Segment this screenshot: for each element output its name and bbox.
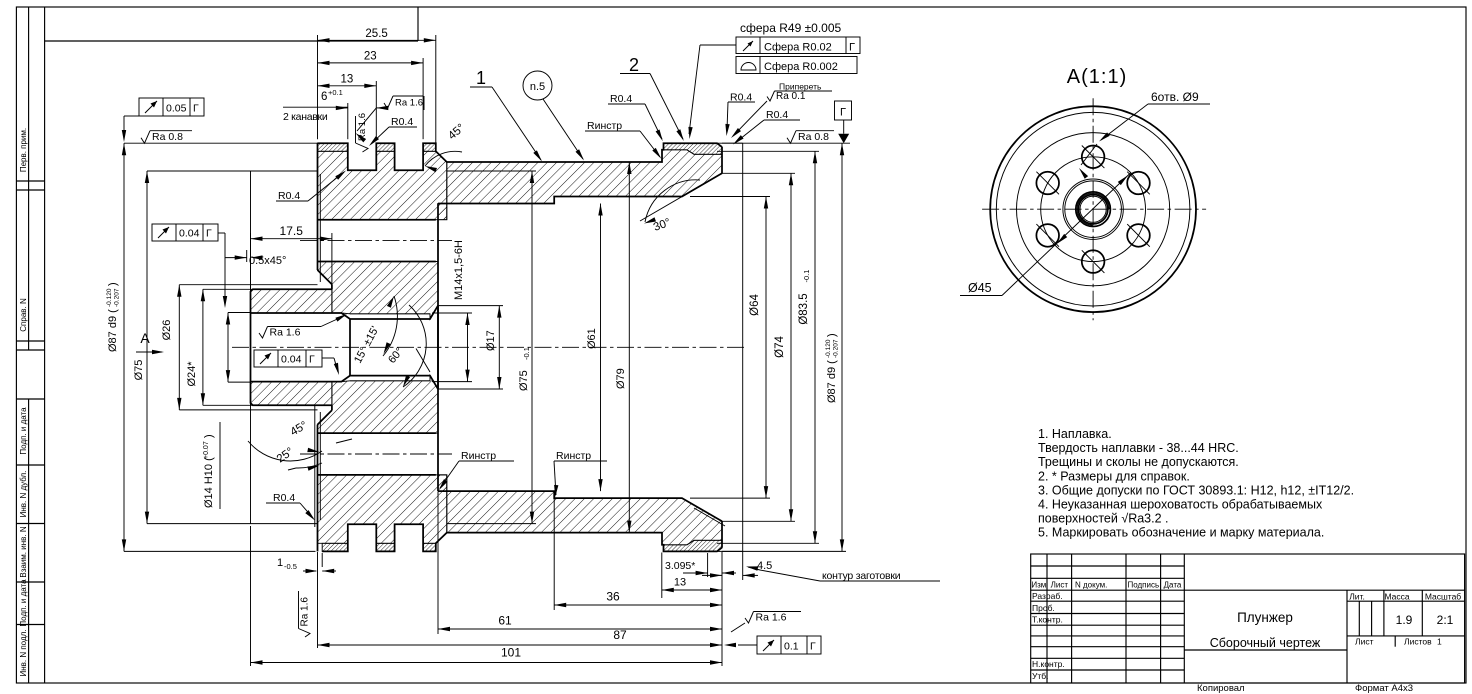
dimension 25.5	[317, 35, 319, 139]
svg-text:1.9: 1.9	[1396, 613, 1413, 627]
svg-text:Ø26: Ø26	[161, 320, 173, 341]
svg-text:N докум.: N докум.	[1075, 581, 1107, 590]
hardfacing band lower left	[322, 543, 348, 551]
svg-text:R0.4: R0.4	[766, 109, 788, 121]
blank contour right	[742, 143, 744, 551]
svg-text:Изм: Изм	[1031, 581, 1046, 590]
thread boundary line	[349, 319, 351, 376]
svg-text:Ra 0.8: Ra 0.8	[798, 131, 829, 143]
svg-text:Ø17: Ø17	[485, 330, 497, 351]
svg-text:23: 23	[364, 50, 377, 62]
blank contour left	[250, 171, 252, 524]
overlay boundary line	[447, 170, 536, 172]
svg-text:Г: Г	[309, 354, 315, 366]
svg-text:5. Маркировать обозначение и м: 5. Маркировать обозначение и марку матер…	[1038, 526, 1324, 540]
svg-text:): )	[826, 333, 838, 337]
sphere runout frame	[736, 37, 860, 54]
svg-text:R0.4: R0.4	[391, 116, 413, 128]
svg-text:Масса: Масса	[1384, 592, 1409, 602]
dimension 3.095	[707, 553, 709, 577]
30 degree cone extension	[640, 173, 722, 221]
dimension 0.5x45	[246, 250, 248, 262]
dimension Ø83.5	[717, 150, 819, 152]
roughness Ra 1.6 groove2	[384, 96, 393, 109]
svg-text:Г: Г	[840, 107, 846, 119]
svg-text:A: A	[140, 330, 150, 346]
roughness Ra 1.6 bottom right	[745, 612, 801, 624]
title block rows	[1031, 565, 1185, 567]
hatch lower flange block	[318, 475, 447, 543]
svg-text:Копировал: Копировал	[1197, 683, 1245, 694]
svg-text:Ra 1.6: Ra 1.6	[357, 113, 368, 141]
view A outer circles	[990, 106, 1196, 312]
svg-text:Ø61: Ø61	[586, 328, 598, 349]
svg-text:Подп. и дата: Подп. и дата	[19, 579, 28, 627]
svg-text:2: 2	[629, 55, 639, 75]
dimension Ø79	[628, 162, 630, 533]
svg-text:Подп. и дата: Подп. и дата	[19, 407, 28, 455]
svg-text:2. * Размеры для справок.: 2. * Размеры для справок.	[1038, 469, 1190, 483]
svg-text:Утб.: Утб.	[1032, 671, 1049, 681]
left face	[317, 143, 319, 270]
dimension Ø87 d9 left	[124, 550, 316, 552]
svg-text:Твердость наплавки - 38...44 H: Твердость наплавки - 38...44 HRC.	[1038, 441, 1239, 455]
svg-text:0.5x45°: 0.5x45°	[249, 255, 286, 267]
svg-text:Справ. N: Справ. N	[19, 298, 28, 332]
svg-text:Проб.: Проб.	[1032, 603, 1055, 613]
svg-text:Ø87 d9 (: Ø87 d9 (	[826, 360, 838, 403]
svg-text:Ø64: Ø64	[749, 294, 761, 316]
svg-text:-0.207: -0.207	[114, 288, 121, 307]
svg-text:Ø14 H10 (: Ø14 H10 (	[203, 457, 215, 508]
svg-text:Ø87 d9 (: Ø87 d9 (	[107, 309, 119, 352]
sphere leader	[700, 44, 736, 46]
hatch upper middle tube	[438, 150, 722, 220]
svg-text:13: 13	[341, 73, 354, 85]
svg-text:R0.4: R0.4	[610, 93, 632, 105]
svg-text:1: 1	[476, 68, 486, 88]
hatch lower web	[318, 376, 439, 434]
datum Г right	[722, 142, 850, 144]
svg-text:Rинстр: Rинстр	[556, 450, 591, 462]
svg-text:Лист: Лист	[1051, 581, 1069, 590]
svg-text:2:1: 2:1	[1437, 613, 1454, 627]
view A bolt circle	[1041, 157, 1146, 262]
svg-text:Rинстр: Rинстр	[587, 120, 622, 132]
svg-text:Ra 0.1: Ra 0.1	[776, 91, 806, 102]
svg-text:Подпись: Подпись	[1127, 581, 1159, 590]
svg-text:Ra 0.8: Ra 0.8	[152, 131, 183, 143]
bolt hole axis upper	[300, 240, 452, 242]
hatch upper flange block	[318, 151, 447, 219]
svg-text:4. Неуказанная шероховатость о: 4. Неуказанная шероховатость обрабатывае…	[1038, 498, 1323, 512]
part outline lower	[322, 524, 722, 551]
svg-text:Т.контр.: Т.контр.	[1032, 615, 1063, 625]
svg-text:Н.контр.: Н.контр.	[1032, 659, 1065, 669]
svg-text:Ø75: Ø75	[518, 370, 530, 391]
dimension 4.5	[742, 551, 744, 580]
svg-text:Листов: Листов	[1404, 637, 1432, 647]
dimension Ø14 H10	[228, 312, 251, 314]
svg-text:0.1: 0.1	[784, 641, 799, 653]
svg-text:0.04: 0.04	[281, 354, 302, 366]
svg-text:17.5: 17.5	[280, 224, 304, 238]
svg-text:Трещины и сколы не допускаются: Трещины и сколы не допускаются.	[1038, 455, 1239, 469]
note circle n.5	[523, 71, 552, 100]
bolt hole axis lower	[300, 453, 452, 455]
svg-text:Г: Г	[849, 42, 855, 54]
thread major thin lines	[350, 313, 430, 315]
view A circle Ø64	[1017, 133, 1170, 286]
svg-text:-0.1: -0.1	[522, 347, 531, 360]
svg-text:1. Наплавка.: 1. Наплавка.	[1038, 427, 1112, 441]
hatch upper web	[318, 262, 439, 320]
svg-text:R0.4: R0.4	[278, 190, 300, 202]
svg-text:36: 36	[606, 590, 620, 604]
svg-text:Сфера R0.02: Сфера R0.02	[764, 42, 832, 54]
svg-text:сфера R49 ±0.005: сфера R49 ±0.005	[740, 21, 842, 35]
svg-text:+0.1: +0.1	[328, 88, 343, 97]
dimension 1-0.5	[317, 552, 319, 648]
part outline upper	[318, 143, 723, 170]
dimension Ø75 left	[147, 170, 251, 172]
right face	[721, 147, 723, 173]
dimension M14x1.5-6H	[432, 312, 472, 314]
svg-text:R0.4: R0.4	[273, 492, 295, 504]
svg-text:Ø24*: Ø24*	[186, 361, 198, 387]
svg-text:Припереть: Припереть	[779, 82, 822, 92]
dimension Ø17	[438, 305, 503, 307]
hardfacing band upper left	[318, 143, 348, 151]
svg-text:-0.207: -0.207	[833, 339, 840, 358]
runout frame 0.05	[139, 98, 204, 116]
svg-text:3. Общие допуски по ГОСТ 30893: 3. Общие допуски по ГОСТ 30893.1: H12, h…	[1038, 483, 1354, 497]
svg-text:+0.07: +0.07	[203, 441, 210, 459]
svg-text:Формат А4х3: Формат А4х3	[1355, 683, 1413, 694]
top-left primary-use table	[45, 40, 418, 42]
svg-text:3.095*: 3.095*	[665, 560, 695, 572]
svg-text:Лит.: Лит.	[1349, 592, 1365, 602]
blank cone allowance line	[694, 508, 725, 526]
svg-text:1: 1	[1437, 637, 1442, 647]
svg-text:Разраб.: Разраб.	[1032, 591, 1063, 601]
bolt hole slot lines lower	[318, 474, 436, 476]
svg-text:): )	[107, 282, 119, 286]
runout frame 0.04 upper	[152, 224, 218, 241]
лит subcells	[1358, 601, 1360, 636]
hatch boss lower	[251, 382, 332, 406]
svg-text:Взаим. инв. N: Взаим. инв. N	[19, 526, 28, 577]
bore walls lower	[438, 491, 722, 521]
title block frame	[1031, 554, 1465, 683]
runout frame 0.04 lower	[254, 350, 322, 367]
dimension Ø87 d9 right	[722, 550, 846, 552]
svg-text:2 канавки: 2 канавки	[283, 111, 328, 123]
svg-text:M14x1,5-6H: M14x1,5-6H	[453, 240, 465, 300]
dimension 61	[437, 492, 439, 634]
svg-text:Перв. прим.: Перв. прим.	[19, 128, 28, 172]
svg-text:Ø79: Ø79	[615, 368, 627, 389]
svg-text:Ra 1.6: Ra 1.6	[395, 98, 423, 109]
dimension 23	[422, 58, 424, 139]
bore bottom face	[437, 306, 439, 389]
svg-text:Сфера R0.002: Сфера R0.002	[764, 61, 838, 73]
svg-text:-0.120: -0.120	[825, 339, 832, 358]
hatch lower middle tube	[438, 475, 722, 545]
part centerline	[232, 346, 746, 348]
svg-text:-0.5: -0.5	[284, 562, 297, 571]
svg-text:Г: Г	[193, 103, 199, 115]
svg-text:n.5: n.5	[530, 81, 545, 93]
dimension 13 bottom	[661, 553, 663, 599]
svg-text:87: 87	[613, 628, 627, 642]
dimension Ø64	[690, 196, 770, 198]
hardfacing band upper right	[664, 143, 723, 154]
dimension Ø61	[600, 204, 602, 492]
svg-text:Дата: Дата	[1164, 581, 1182, 590]
hardfacing band lower right	[664, 540, 723, 551]
svg-text:): )	[203, 434, 215, 438]
dimension Ø75-0.1	[531, 171, 533, 524]
лист row divider	[1394, 636, 1396, 647]
svg-text:Ø75: Ø75	[133, 360, 145, 381]
svg-text:Ø74: Ø74	[774, 336, 786, 358]
boss outline	[251, 289, 332, 405]
dimension Ø74	[722, 172, 795, 174]
view A centerlines	[982, 208, 1206, 210]
svg-text:61: 61	[498, 614, 512, 628]
svg-text:Лист: Лист	[1355, 637, 1374, 647]
face overlay boundary upper	[319, 174, 321, 282]
svg-text:Плунжер: Плунжер	[1237, 610, 1293, 625]
dimension 36	[553, 499, 555, 610]
view A hub circles	[1063, 179, 1123, 239]
svg-text:0.04: 0.04	[179, 228, 200, 240]
svg-text:Г: Г	[810, 641, 816, 653]
bore walls upper	[438, 173, 722, 203]
runout frame 0.1 bottom	[757, 636, 821, 654]
svg-text:Инв. N дубл.: Инв. N дубл.	[19, 471, 28, 518]
face cone edge line lower	[314, 406, 316, 527]
dimension 101	[250, 526, 252, 666]
svg-text:1: 1	[277, 557, 283, 569]
dimension 6+0.1	[347, 103, 349, 139]
svg-text:контур заготовки: контур заготовки	[822, 570, 901, 582]
view A bolt holes	[1082, 146, 1105, 169]
svg-text:Инв. N подл.: Инв. N подл.	[19, 629, 28, 676]
dimension Ø24	[203, 288, 251, 290]
svg-text:Ø45: Ø45	[968, 281, 992, 295]
svg-text:Ra 1.6: Ra 1.6	[756, 612, 787, 624]
svg-text:-0.1: -0.1	[802, 270, 811, 283]
svg-text:Ra 1.6: Ra 1.6	[300, 597, 311, 627]
dimension 17.5	[250, 233, 252, 293]
sphere form frame	[736, 57, 857, 74]
svg-text:6отв. Ø9: 6отв. Ø9	[1151, 90, 1199, 104]
svg-text:13: 13	[674, 577, 686, 589]
bolt hole slot lines upper	[318, 219, 436, 221]
svg-text:Г: Г	[206, 228, 212, 240]
dimension Ø26	[179, 284, 317, 286]
roughness Ra 1.6 bottom left vertical	[299, 591, 311, 637]
svg-text:поверхностей √Ra3.2 .: поверхностей √Ra3.2 .	[1038, 512, 1169, 526]
svg-text:25.5: 25.5	[365, 28, 387, 40]
roughness Ra 1.6 bore	[259, 327, 321, 339]
hatch boss upper	[251, 289, 332, 313]
svg-text:A(1:1): A(1:1)	[1067, 66, 1127, 88]
dimension 13	[375, 81, 377, 139]
svg-text:Ø83.5: Ø83.5	[798, 293, 810, 324]
svg-text:-0.120: -0.120	[106, 288, 113, 307]
svg-text:Rинстр: Rинстр	[461, 450, 496, 462]
svg-text:Ra 1.6: Ra 1.6	[270, 327, 301, 339]
title block columns	[1046, 554, 1048, 683]
roughness Ra 1.6 groove1 vertical	[356, 113, 369, 152]
svg-text:6: 6	[321, 91, 327, 103]
left margin column lines	[28, 7, 30, 190]
roughness Ra 0.8 left	[124, 142, 318, 144]
inner frame left line	[44, 7, 46, 683]
face overlay boundary lower	[319, 412, 321, 520]
svg-text:101: 101	[501, 646, 521, 660]
bore back face	[437, 204, 439, 492]
dimension 87	[721, 552, 723, 666]
svg-text:Масштаб: Масштаб	[1425, 592, 1461, 602]
svg-text:Сборочный чертеж: Сборочный чертеж	[1210, 636, 1321, 650]
central hole	[251, 306, 439, 319]
svg-text:0.05: 0.05	[166, 103, 187, 115]
